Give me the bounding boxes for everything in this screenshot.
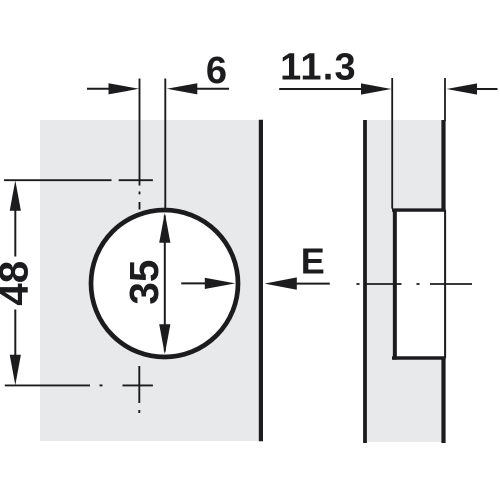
svg-text:35: 35 [121,260,167,305]
hole centerline vertical x=139.5 solid [139,79,141,186]
dimension 6: right tail line [196,88,229,90]
side panel right edge upper segment (thick) [441,120,445,210]
dimension 48: top arrowhead (points up) [10,180,21,210]
svg-text:E: E [301,241,325,282]
side panel right edge lower segment (thick) [441,358,445,443]
top reference line y=180 cross dash [119,179,153,181]
svg-text:6: 6 [206,50,227,92]
dimension 11.3: right extension line [444,78,446,121]
side panel (section view) gray body [365,120,445,442]
side panel left edge (thick) [363,120,367,443]
bottom cross vertical dot [138,410,140,413]
dimension 48: lower line segment [14,310,16,357]
cup hole circle (35 mm) [91,210,238,357]
dimension 11.3: right tail line [476,88,498,90]
bottom reference line dot [100,384,103,386]
bottom reference line cross dash [123,384,153,386]
dimension 35: horizontal radius line [181,282,206,284]
cup notch bottom edge (thick) [392,356,446,360]
E arrow tail line [295,283,330,285]
top reference line y=180 long segment [4,179,112,181]
cup notch left edge (thick) [393,209,397,360]
dimension 11.3: left extension line [391,78,393,209]
svg-text:11.3: 11.3 [280,47,357,89]
svg-text:48: 48 [0,261,37,306]
dimension 6: right arrowhead (points left) [167,83,198,94]
side panel centerline: dot middle [417,283,420,285]
dimension 35: bottom arrowhead (points down) [159,324,170,354]
bottom cross vertical solid [138,366,140,403]
E arrow head (points left at door edge) [265,277,297,289]
hole centerline vertical dot [139,192,141,195]
cup notch right thin opening line [444,210,446,358]
dimension 6: left arrowhead (points right) [109,83,140,94]
dimension 48: upper line segment [14,209,16,257]
dimension 11.3: left arrowhead (points right) [361,83,392,94]
dimension 48: bottom arrowhead (points down) [10,355,21,385]
cup hole section (white notch) [393,209,444,360]
side panel centerline: dot left [357,283,360,285]
cup notch top edge (thick) [392,208,446,211]
dimension 35: vertical line inside circle [164,216,166,352]
side panel centerline: long dash crossing right edge [430,283,472,285]
dimension 35: horizontal arrowhead (points right) [205,278,236,289]
door panel right edge (thick) [259,120,263,442]
dimension 11.3: left tail line [279,88,364,90]
side panel centerline: long dash crossing panel [366,283,402,285]
door panel (front view) gray body [40,120,259,441]
dimension 6: left tail line [87,88,112,90]
cup centerline vertical x=165.3 [164,79,166,210]
hole centerline vertical dash [139,202,141,210]
bottom reference line y=385.4 long segment [5,384,90,386]
dimension 11.3: right arrowhead (points left) [447,83,478,94]
dimension 35: top arrowhead (points up) [159,213,170,243]
